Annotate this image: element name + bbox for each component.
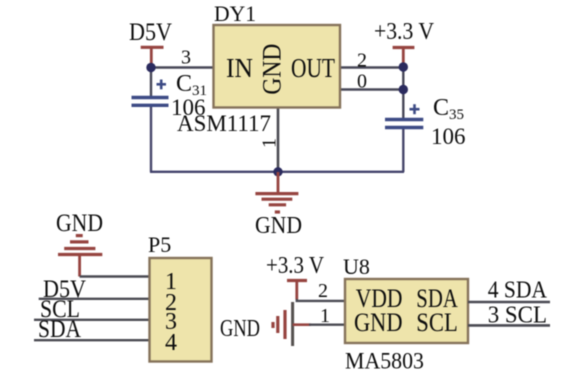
junction: +3.3V node lower [399,85,408,94]
ground symbol (left of U8, rotated) [273,302,311,346]
svg-text:ASM1117: ASM1117 [177,111,271,136]
wire: D5V node down to C31 top [150,68,152,97]
svg-text:4: 4 [165,330,177,356]
svg-text:MA5803: MA5803 [345,349,424,374]
svg-text:U8: U8 [343,254,370,279]
svg-text:GND: GND [257,44,287,95]
ground symbol (below rail) [255,172,298,212]
power flag D5V [141,47,164,66]
svg-text:GND: GND [220,316,260,342]
svg-text:GND: GND [56,210,103,237]
svg-text:+3.3 V: +3.3 V [374,19,435,45]
svg-text:IN: IN [226,53,253,83]
wire: SDA to P5 pin 4 [34,339,149,341]
svg-text:4 SDA: 4 SDA [488,278,548,304]
wire: C35 bottom to ground rail [402,129,404,172]
svg-text:0: 0 [357,71,367,93]
wire: U8 SCL pin 3 out [468,324,550,327]
svg-text:+3.3 V: +3.3 V [266,253,325,279]
connector P5 [150,258,212,362]
svg-text:GND: GND [354,308,403,337]
svg-text:3 SCL: 3 SCL [488,302,547,328]
wire: OUT pin 2 to +3.3V node [340,66,404,68]
power flag +3.3V (U8) [287,281,307,300]
wire: D5V node to IN pin 3 [151,66,214,68]
svg-text:2: 2 [318,280,328,302]
svg-text:106: 106 [431,124,466,149]
wire: GND to P5 pin 1 [80,275,149,277]
wire: SCL to P5 pin 3 [34,319,149,321]
svg-text:GND: GND [255,213,302,239]
wire: U8 SDA pin 4 out [468,301,550,304]
wire: C31 bottom to ground rail [150,106,152,172]
svg-text:1: 1 [259,138,281,148]
svg-text:DY1: DY1 [214,1,256,26]
svg-text:D5V: D5V [129,19,172,46]
regulator U DY1 [214,25,341,108]
wire: +3.3V node down to C35 top [402,66,404,118]
junction: rail/GND [273,167,282,176]
svg-text:OUT: OUT [291,53,335,83]
capacitor C31 [132,80,169,106]
junction: +3.3V node upper [399,62,408,71]
power flag +3.3V (top) [393,48,415,66]
svg-text:2: 2 [357,50,367,72]
ic U8 [345,279,468,343]
junction: D5V node [146,63,155,72]
svg-text:C35: C35 [433,95,464,123]
wire: OUT pin 0 to +3.3V node [340,88,404,90]
svg-text:SDA: SDA [38,316,81,343]
ground symbol (above P5, flipped) [58,236,102,277]
svg-text:SCL: SCL [416,308,458,337]
wire: +3.3V corner to U8 VDD pin 2 [297,299,345,301]
svg-text:P5: P5 [148,232,171,257]
wire: regulator GND pin 1 down to rail [277,107,280,172]
capacitor C35 [385,104,423,127]
svg-text:3: 3 [181,47,191,69]
wire: ground to U8 GND pin 1 [309,324,345,326]
wire: bottom ground rail [150,171,404,173]
wire: D5V to P5 pin 2 [39,298,149,300]
